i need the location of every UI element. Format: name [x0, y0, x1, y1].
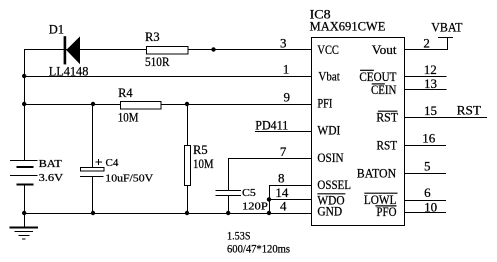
wire RST pin 16	[405, 145, 447, 147]
pin name GND	[317, 205, 342, 219]
svg-text:VCC: VCC	[317, 43, 339, 57]
wire Vbat pin 1	[24, 76, 312, 78]
svg-text:12: 12	[424, 62, 437, 77]
svg-text:13: 13	[424, 76, 437, 91]
wire OSSEL pin 8	[269, 185, 312, 187]
svg-text:1.53S: 1.53S	[227, 229, 251, 243]
resistor R4 body	[121, 102, 162, 110]
net label RST	[457, 103, 482, 117]
svg-text:10: 10	[424, 200, 437, 215]
svg-text:OSSEL: OSSEL	[317, 178, 351, 192]
wire PFI pin 9 left segment	[24, 104, 120, 106]
pin name Vout	[372, 43, 397, 57]
svg-text:MAX691CWE: MAX691CWE	[310, 20, 386, 34]
pin name PFI	[317, 97, 332, 111]
note label 600/47*120ms	[227, 242, 290, 256]
note label 1.53S	[227, 229, 251, 243]
value label 10uF/50V	[105, 173, 153, 185]
svg-text:16: 16	[422, 131, 436, 146]
pin name WDO (overline)	[317, 193, 345, 207]
pin name CEOUT (overline on CE)	[359, 70, 396, 84]
svg-text:120P: 120P	[242, 201, 268, 213]
battery BAT plate short thick 2	[17, 183, 34, 185]
label D1	[49, 23, 64, 37]
junction node R5/ground	[185, 211, 189, 215]
svg-text:510R: 510R	[145, 55, 170, 69]
net label PD411	[255, 119, 288, 133]
svg-text:10uF/50V: 10uF/50V	[105, 173, 153, 185]
svg-text:6: 6	[424, 185, 431, 200]
svg-text:10M: 10M	[118, 111, 139, 125]
pin number 2	[423, 35, 430, 50]
svg-text:8: 8	[278, 171, 285, 186]
pin number 5	[424, 158, 431, 173]
wire left rail vertical top	[24, 49, 26, 160]
svg-text:GND: GND	[317, 205, 342, 219]
wire C4 top vertical	[92, 104, 94, 168]
junction node tie/ground	[267, 211, 271, 215]
svg-text:600/47*120ms: 600/47*120ms	[227, 242, 290, 256]
wire PFI pin 9 right segment (R4 to PFI)	[162, 104, 312, 106]
pin number 4	[280, 198, 287, 213]
pin name OSSEL	[317, 178, 351, 192]
junction node C4/ground	[91, 211, 95, 215]
svg-text:C4: C4	[106, 157, 119, 169]
wire LOWL pin 6	[405, 200, 447, 202]
pin number 1	[283, 61, 290, 76]
resistor R3 body	[147, 47, 189, 55]
pin number 10	[424, 200, 437, 215]
label IC8	[310, 8, 331, 22]
junction node tie/WDO wire	[267, 197, 271, 201]
wire R5 top vertical	[187, 104, 189, 145]
label R4	[118, 86, 133, 100]
label C5	[242, 187, 256, 199]
diode D1 triangle	[66, 36, 80, 64]
pin name VCC	[317, 43, 339, 57]
junction node rail/pin1	[22, 74, 26, 78]
label BAT	[39, 158, 63, 170]
wire C5 top vertical from OSIN	[228, 158, 230, 191]
capacitor C4 negative plate	[80, 176, 104, 178]
svg-text:LL4148: LL4148	[49, 65, 89, 79]
power terminal VBAT bar	[438, 37, 453, 39]
battery BAT plate short thick 1	[17, 166, 34, 168]
wire top rail left segment (node VBAT to R3)	[24, 49, 147, 51]
svg-text:1: 1	[283, 61, 290, 76]
ground symbol line 3	[18, 235, 29, 237]
label MAX691CWE	[310, 20, 386, 34]
svg-text:R5: R5	[193, 143, 208, 157]
wire CEIN pin 13	[405, 89, 447, 91]
pin number 12	[424, 62, 437, 77]
resistor R5 body	[185, 146, 191, 186]
svg-text:BAT: BAT	[39, 158, 63, 170]
svg-text:D1: D1	[49, 23, 64, 37]
pin name RST pin15 (overline)	[376, 111, 398, 125]
ground symbol line 2	[15, 231, 34, 233]
pin number 13	[424, 76, 437, 91]
wire battery negative to ground rail	[24, 185, 26, 215]
value label LL4148	[49, 65, 89, 79]
wire tie OSSEL/WDO/GND vertical	[269, 185, 271, 214]
svg-text:PFI: PFI	[317, 97, 332, 111]
value label 3.6V	[39, 172, 64, 184]
wire C4 bottom vertical	[92, 177, 94, 215]
IC IC8 MAX691CWE body	[312, 38, 405, 226]
svg-text:Vout: Vout	[372, 43, 397, 57]
value label 510R	[145, 55, 170, 69]
value label 10M of R5	[193, 157, 214, 171]
wire CEOUT pin 12	[405, 76, 447, 78]
svg-text:RST: RST	[376, 111, 398, 125]
pin name PFO (overline)	[375, 205, 396, 219]
svg-text:PFO: PFO	[376, 205, 396, 219]
junction node R5/pin9 wire	[185, 102, 189, 106]
pin name CEIN (overline on CE)	[371, 83, 396, 97]
pin number 14	[275, 185, 289, 200]
pin number 9	[284, 89, 291, 104]
pin name OSIN	[317, 151, 343, 165]
ground symbol line 4	[22, 238, 25, 240]
pin number 8	[278, 171, 285, 186]
svg-text:RST: RST	[457, 103, 482, 117]
junction node C5/ground	[226, 211, 230, 215]
svg-text:5: 5	[424, 158, 431, 173]
pin number 6	[424, 185, 431, 200]
pin number 15	[424, 103, 437, 118]
pin name BATON	[357, 166, 396, 180]
pin name RST pin16	[377, 139, 398, 153]
svg-text:9: 9	[284, 89, 291, 104]
svg-text:Vbat: Vbat	[318, 70, 340, 84]
label R5	[193, 143, 208, 157]
svg-text:4: 4	[280, 198, 287, 213]
battery BAT plate long top	[10, 160, 38, 162]
wire WDI net PD411	[255, 131, 312, 133]
svg-text:R3: R3	[145, 30, 160, 44]
net label VBAT	[431, 21, 463, 35]
wire ground stub below rail	[24, 214, 26, 228]
value label 120P	[242, 201, 268, 213]
wire Vout pin 2	[405, 49, 448, 51]
svg-text:OSIN: OSIN	[317, 151, 343, 165]
pin number 7	[280, 144, 287, 159]
capacitor C4 positive plate box	[81, 168, 105, 172]
svg-text:C5: C5	[242, 187, 256, 199]
svg-text:10M: 10M	[193, 157, 214, 171]
svg-text:15: 15	[424, 103, 437, 118]
diode D1 cathode bar	[64, 36, 67, 64]
label C4	[106, 157, 119, 169]
svg-text:RST: RST	[377, 139, 398, 153]
wire BATON pin 5	[405, 173, 447, 175]
wire R5 bottom vertical	[187, 186, 189, 215]
pin name WDI	[317, 124, 340, 138]
battery BAT plate long 2	[10, 175, 38, 177]
wire top rail right segment (R3 to VCC pin 3)	[189, 49, 312, 51]
value label 10M of R4	[118, 111, 139, 125]
junction node C4/pin9 wire	[91, 102, 95, 106]
ground symbol line 1	[10, 227, 38, 229]
wire WDO pin 14	[269, 199, 312, 201]
capacitor C4 plus sign	[96, 159, 103, 165]
svg-text:7: 7	[280, 144, 287, 159]
svg-text:2: 2	[423, 35, 430, 50]
pin number 16	[422, 131, 436, 146]
svg-text:3.6V: 3.6V	[39, 172, 64, 184]
label R3	[145, 30, 160, 44]
svg-text:BATON: BATON	[357, 166, 396, 180]
wire ground rail to GND pin 4	[24, 213, 312, 215]
junction node rail/ground	[22, 211, 26, 215]
capacitor C5 bottom plate	[216, 195, 241, 197]
wire OSIN pin 7	[228, 158, 312, 160]
pin name Vbat	[318, 70, 340, 84]
svg-text:R4: R4	[118, 86, 133, 100]
svg-text:CEIN: CEIN	[371, 83, 396, 97]
junction node top rail dot	[211, 47, 215, 51]
wire PFO pin 10	[405, 212, 447, 214]
svg-text:3: 3	[280, 35, 287, 50]
capacitor C5 top plate	[216, 190, 241, 192]
pin name LOWL (overline)	[364, 193, 398, 207]
svg-text:WDI: WDI	[317, 124, 340, 138]
wire C5 bottom vertical	[228, 196, 230, 214]
junction node rail/pin9	[22, 102, 26, 106]
wire RST pin 15	[405, 117, 488, 119]
svg-text:PD411: PD411	[255, 119, 288, 133]
wire VBAT terminal vertical	[447, 37, 449, 50]
pin number 3	[280, 35, 287, 50]
svg-text:VBAT: VBAT	[431, 21, 463, 35]
